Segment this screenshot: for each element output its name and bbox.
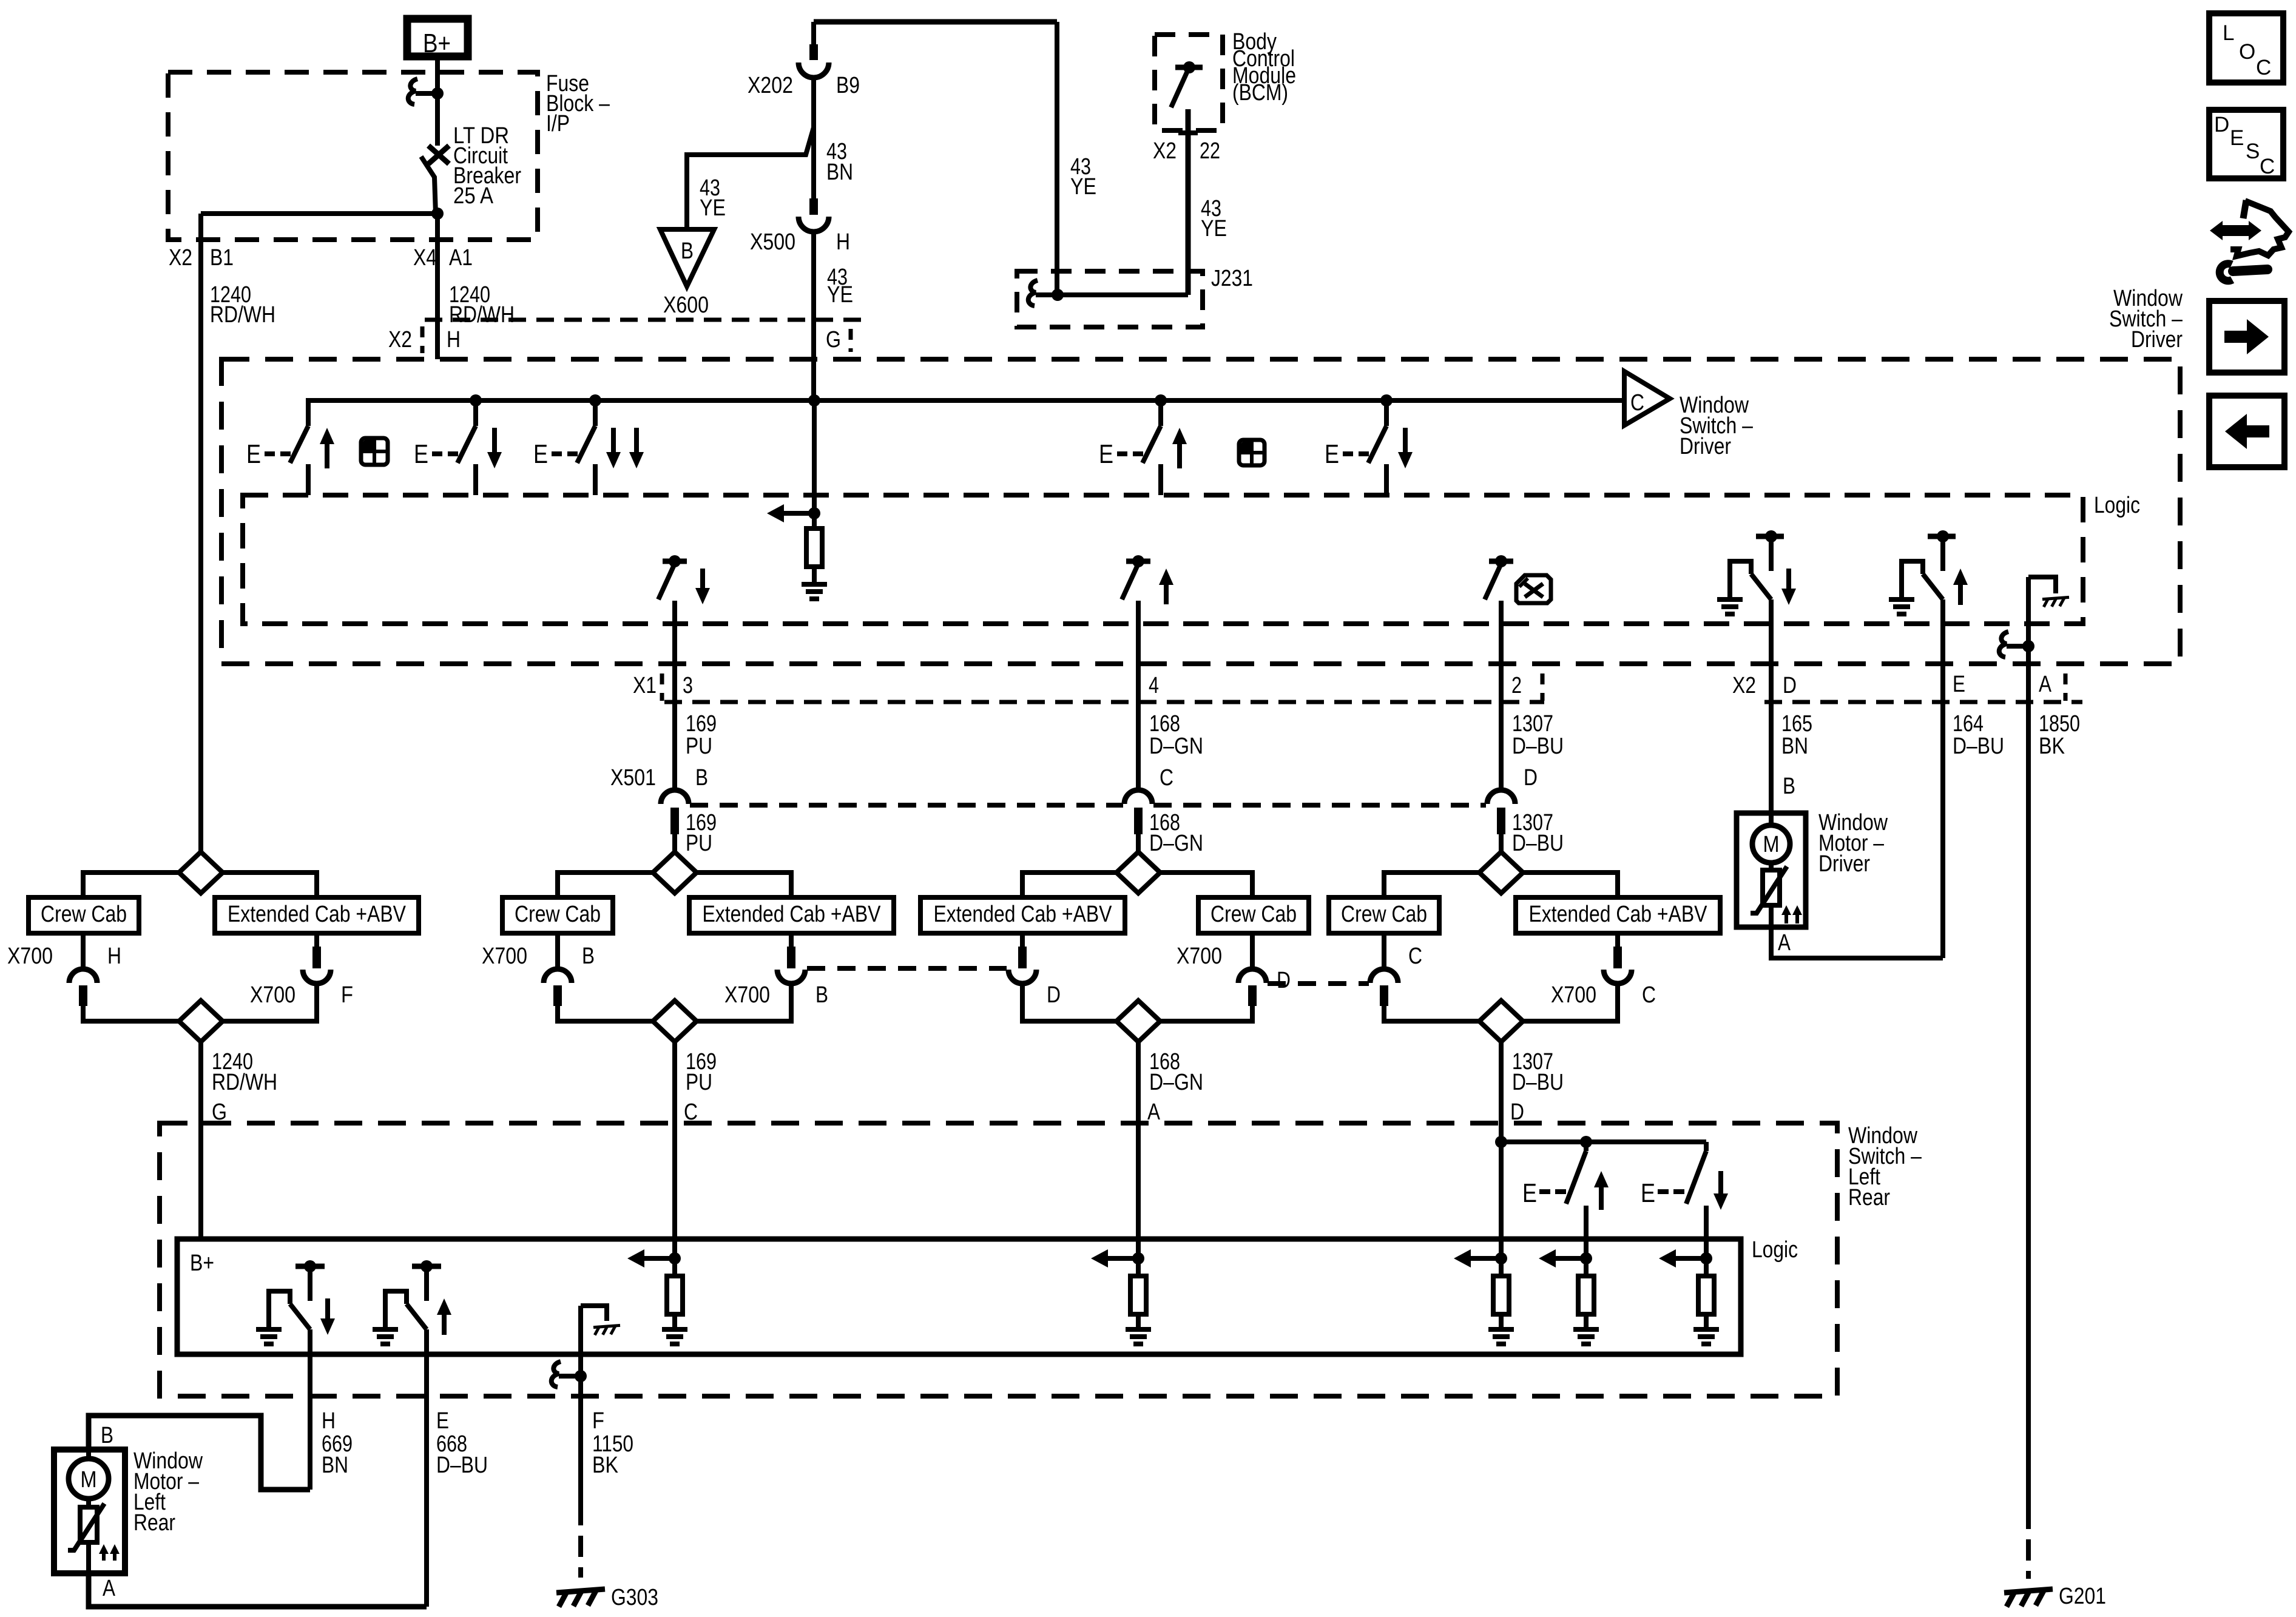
svg-text:B: B — [815, 982, 828, 1008]
svg-text:25 A: 25 A — [453, 183, 494, 209]
logic pulldown arrow at 1112 — [669, 1252, 681, 1264]
bus switch passenger down — [1384, 400, 1389, 426]
svg-text:D–BU: D–BU — [1512, 831, 1564, 856]
wire motor driver A out — [1769, 905, 1774, 927]
tick after pin A — [2064, 673, 2068, 701]
svg-text:X2: X2 — [1732, 673, 1756, 698]
svg-text:Driver: Driver — [1818, 851, 1870, 877]
svg-text:169: 169 — [686, 711, 717, 737]
wire 164 D-BU — [1940, 704, 1945, 958]
triangle connector C window switch driver — [1624, 371, 1670, 425]
svg-text:4: 4 — [1149, 673, 1159, 698]
svg-text:(BCM): (BCM) — [1232, 80, 1288, 106]
svg-text:X501: X501 — [610, 765, 656, 791]
wire left to lower splice group3 — [1022, 984, 1116, 1021]
left rear switch up — [1584, 1142, 1589, 1151]
resistor at 2614 — [1584, 1258, 1589, 1276]
svg-text:BK: BK — [592, 1453, 618, 1478]
svg-text:M: M — [81, 1467, 97, 1493]
connector X700 left cap group4 — [1382, 933, 1386, 969]
svg-text:C: C — [2256, 56, 2271, 79]
svg-text:YE: YE — [827, 282, 853, 308]
svg-text:2: 2 — [1511, 673, 1522, 698]
connector X700 right cup group1 — [314, 933, 319, 948]
svg-text:E: E — [436, 1408, 449, 1434]
wire 1307 D-BU to splice — [1499, 834, 1504, 852]
svg-text:D: D — [1783, 673, 1797, 698]
bus switch passenger up — [1158, 400, 1163, 426]
svg-text:H: H — [107, 944, 121, 969]
wire F dashed segment — [578, 1504, 583, 1578]
motor M driver — [1769, 813, 1774, 826]
splice J231 dashed box — [1017, 271, 1203, 327]
svg-text:H: H — [322, 1408, 336, 1434]
svg-text:YE: YE — [1201, 216, 1227, 241]
wire left to lower splice group2 — [558, 1006, 653, 1021]
circuit breaker LT DR 25A — [435, 93, 440, 146]
motor M left rear — [86, 1450, 91, 1460]
wire label 668 D-BU — [424, 1414, 429, 1607]
wire 1307 D-BU lower — [1499, 1042, 1504, 1142]
connector X202 arc — [799, 62, 829, 78]
svg-text:H: H — [836, 229, 850, 255]
wire 1240 RD/WH to left rear switch — [198, 1042, 203, 1239]
wire 169 PU to splice — [672, 834, 677, 852]
ground G303 — [556, 1589, 605, 1607]
DESC icon box — [2209, 110, 2283, 178]
svg-text:1307: 1307 — [1512, 711, 1553, 737]
svg-text:X2: X2 — [1153, 138, 1177, 164]
top bus wire to BCM branch — [814, 19, 1057, 25]
splice diamond lower C group4 — [1479, 1001, 1523, 1042]
wire 165 BN to window motor driver — [1769, 704, 1774, 813]
svg-text:X700: X700 — [7, 944, 53, 969]
wire D feed horizontal — [1501, 1139, 1706, 1144]
connector X700 left cap group1 — [81, 933, 86, 969]
svg-text:X600: X600 — [663, 292, 709, 318]
svg-text:D–BU: D–BU — [436, 1453, 488, 1478]
window motor left rear box — [54, 1450, 125, 1573]
left rear logic solid box — [177, 1239, 1741, 1354]
resistor at 2812 — [1704, 1258, 1709, 1276]
variant box Crew Cab group1 — [29, 897, 139, 933]
svg-text:X700: X700 — [1551, 982, 1596, 1008]
svg-text:Extended Cab +ABV: Extended Cab +ABV — [228, 902, 407, 927]
wire 169 PU lower — [672, 1042, 677, 1258]
wire H staircase to motor B — [89, 1416, 310, 1490]
fuse block dashed box — [168, 72, 538, 240]
svg-text:C: C — [1160, 765, 1173, 791]
variant box Crew Cab group3 — [1198, 897, 1309, 933]
wire breaker to X2-B1 branch — [201, 211, 437, 216]
connector X500 arc — [799, 217, 829, 232]
wire motor A to 164 D-BU — [1771, 927, 1943, 958]
BCM internal switch — [1175, 65, 1203, 70]
resistor logic 43YE — [812, 513, 817, 528]
splice J231 clip and junction — [1028, 280, 1038, 306]
branch wire right group1 — [223, 873, 317, 897]
junction D feed left rear — [1495, 1136, 1507, 1148]
svg-text:F: F — [341, 982, 353, 1008]
svg-text:PU: PU — [686, 734, 712, 759]
wire 1850 BK to G201 — [2026, 704, 2031, 1508]
svg-text:YE: YE — [700, 195, 726, 221]
svg-text:B: B — [582, 944, 595, 969]
svg-text:BK: BK — [2039, 734, 2065, 759]
svg-text:168: 168 — [1149, 711, 1180, 737]
variant box Extended Cab +ABV group1 — [215, 897, 419, 933]
window switch left rear dashed box — [160, 1123, 1837, 1396]
wire J231 to BCM wire — [1058, 292, 1188, 297]
wire breaker to X4-A1 — [435, 214, 440, 359]
svg-text:A: A — [1147, 1099, 1161, 1125]
svg-text:B: B — [695, 765, 708, 791]
tick X1 — [660, 673, 664, 701]
wire ground-switch D to X2 row — [1769, 599, 1774, 704]
variant box Crew Cab group4 — [1329, 897, 1439, 933]
svg-text:E: E — [533, 439, 548, 469]
splice diamond upper H group1 — [179, 852, 223, 893]
wire right to lower splice group2 — [697, 984, 791, 1021]
ground G201 — [2004, 1589, 2053, 1607]
svg-text:D: D — [1047, 982, 1061, 1008]
svg-text:Rear: Rear — [1848, 1185, 1890, 1210]
svg-text:G: G — [826, 327, 841, 353]
svg-text:E: E — [1953, 672, 1965, 697]
svg-text:X700: X700 — [724, 982, 770, 1008]
svg-text:Driver: Driver — [1680, 434, 1731, 459]
svg-text:Crew Cab: Crew Cab — [41, 902, 127, 927]
branch wire right group4 — [1523, 873, 1618, 897]
bus switch driver down — [473, 400, 478, 426]
window switch driver dashed box — [221, 359, 2180, 664]
bus junction X500 feed — [808, 394, 820, 407]
resistor at 1112 — [672, 1258, 677, 1276]
dashed connector link B to D — [807, 966, 1007, 971]
svg-text:Rear: Rear — [133, 1510, 175, 1536]
wire motor A left rear — [86, 1542, 91, 1573]
svg-text:C: C — [2260, 155, 2275, 178]
ground switch driver motor up — [1928, 534, 1956, 539]
svg-text:D–BU: D–BU — [1512, 1070, 1564, 1095]
svg-text:BN: BN — [322, 1453, 348, 1478]
svg-text:B: B — [1783, 774, 1795, 799]
svg-text:C: C — [1642, 982, 1656, 1008]
svg-text:1850: 1850 — [2039, 711, 2080, 737]
svg-text:B: B — [681, 238, 694, 264]
branch wire left group4 — [1384, 873, 1479, 897]
svg-text:Driver: Driver — [2131, 327, 2183, 353]
connector row X2 fuse output — [425, 318, 868, 322]
wire 169 PU upper — [672, 601, 677, 790]
branch wire right group3 — [1160, 873, 1252, 897]
wire right to lower splice group1 — [223, 984, 317, 1021]
svg-text:A: A — [2039, 672, 2052, 697]
connector X501 pin D — [1487, 790, 1515, 804]
svg-text:G303: G303 — [611, 1585, 658, 1610]
connector row X1 dotted line — [664, 700, 1544, 704]
ground at 2614 — [1584, 1314, 1589, 1329]
logic switch express output F column — [1489, 559, 1513, 564]
arrow left icon box — [2209, 396, 2284, 467]
wire X500 to bus 43 YE — [811, 231, 816, 400]
svg-text:E: E — [414, 439, 428, 469]
svg-text:X700: X700 — [250, 982, 295, 1008]
junction switch up feed — [1580, 1136, 1592, 1148]
wire 1307 D-BU upper — [1499, 601, 1504, 790]
logic pulldown arrow at 2474 — [1495, 1252, 1507, 1264]
thermistor driver — [1769, 863, 1774, 870]
svg-text:Logic: Logic — [1752, 1237, 1798, 1263]
svg-text:Extended Cab +ABV: Extended Cab +ABV — [1529, 902, 1708, 927]
svg-text:A: A — [1778, 930, 1791, 956]
variant box Extended Cab +ABV group3 — [920, 897, 1125, 933]
svg-text:X2: X2 — [169, 245, 192, 271]
resistor at 1876 — [1136, 1258, 1141, 1276]
double up arrows driver motor — [1781, 905, 1791, 915]
vehicle fitment icon — [2243, 200, 2246, 218]
splice diamond upper B group2 — [653, 852, 697, 893]
svg-text:X1: X1 — [633, 673, 657, 698]
wire F to G303 — [578, 1306, 583, 1504]
wire X2-B1 down-left feeder — [198, 214, 203, 852]
bus junction 3 — [1155, 394, 1167, 407]
splice diamond upper D group3 — [1116, 852, 1160, 893]
logic pulldown arrow at 2614 — [1580, 1252, 1592, 1264]
wire ground-switch E to X2 row — [1940, 599, 1945, 704]
svg-text:J231: J231 — [1211, 266, 1253, 291]
svg-text:X202: X202 — [748, 73, 793, 98]
bus junction 1 — [470, 394, 482, 407]
svg-text:S: S — [2246, 140, 2260, 163]
connector X700 left cap group2 — [555, 933, 560, 969]
splice diamond upper C group4 — [1479, 852, 1523, 893]
svg-text:D–BU: D–BU — [1512, 734, 1564, 759]
svg-text:PU: PU — [686, 831, 712, 856]
connector X700 right cup group4 — [1615, 933, 1620, 948]
svg-text:D: D — [1277, 968, 1291, 993]
svg-text:A1: A1 — [449, 245, 473, 271]
wire label 669 BN — [308, 1414, 312, 1490]
wire G into left rear box — [198, 1237, 203, 1241]
wire E out of switch — [424, 1329, 429, 1414]
svg-text:D–GN: D–GN — [1149, 734, 1203, 759]
svg-text:PU: PU — [686, 1070, 712, 1095]
svg-text:165: 165 — [1781, 711, 1812, 737]
svg-text:164: 164 — [1953, 711, 1984, 737]
left rear B+ switch down — [295, 1264, 325, 1269]
branch wire left group2 — [558, 873, 653, 897]
left rear switch down — [1704, 1142, 1709, 1151]
left rear B+ switch up — [412, 1264, 441, 1269]
splice diamond lower B group2 — [653, 1001, 697, 1042]
svg-text:X700: X700 — [1177, 944, 1222, 969]
variant box Extended Cab +ABV group4 — [1516, 897, 1720, 933]
logic switch up output E column — [1126, 559, 1150, 564]
wire B+ to circuit breaker — [435, 60, 440, 93]
svg-text:E: E — [2230, 126, 2244, 150]
connector X501 pin C — [1124, 790, 1152, 804]
LOC icon box — [2209, 13, 2283, 83]
circuit breaker clip — [408, 79, 417, 104]
splice diamond lower D group3 — [1116, 1001, 1160, 1042]
svg-text:RD/WH: RD/WH — [449, 302, 515, 328]
branch wire right group2 — [697, 873, 791, 897]
resistor at 2474 — [1499, 1258, 1504, 1276]
svg-text:X4: X4 — [413, 245, 437, 271]
svg-text:BN: BN — [1781, 734, 1808, 759]
window grid icon 2 — [1239, 440, 1264, 465]
driver bus wire — [308, 400, 1625, 408]
branch wire 43 YE to X600 — [687, 127, 814, 229]
connector X501 pin B — [661, 790, 689, 804]
svg-text:E: E — [1099, 439, 1113, 469]
logic switch down output D column — [663, 559, 687, 564]
wire 43 YE right branch to J231 — [1055, 22, 1059, 295]
ground switch driver motor down — [1756, 534, 1784, 539]
wire 1850 BK dashed segment — [2026, 1508, 2031, 1579]
bus junction 4 — [1380, 394, 1393, 407]
svg-text:RD/WH: RD/WH — [212, 1070, 277, 1095]
svg-text:D–GN: D–GN — [1149, 1070, 1203, 1095]
off-page triangle B X600 — [660, 229, 714, 286]
svg-text:D–GN: D–GN — [1149, 831, 1203, 856]
wire 168 D-GN lower — [1136, 1042, 1141, 1258]
svg-text:Crew Cab: Crew Cab — [1341, 902, 1427, 927]
svg-text:22: 22 — [1200, 138, 1220, 164]
svg-text:B1: B1 — [210, 245, 234, 271]
ground bracket F — [581, 1306, 607, 1321]
double up arrows left rear motor — [99, 1544, 109, 1554]
svg-text:D: D — [1524, 765, 1538, 791]
wire 168 D-GN upper — [1136, 601, 1141, 790]
svg-text:G201: G201 — [2059, 1584, 2106, 1609]
connector X700 left cup group3 — [1020, 933, 1025, 948]
variant box Crew Cab group2 — [502, 897, 613, 933]
svg-text:D–BU: D–BU — [1953, 734, 2004, 759]
svg-text:E: E — [1641, 1178, 1655, 1208]
body control module dashed box — [1155, 35, 1223, 130]
connector X700 right cup group2 — [789, 933, 794, 948]
svg-text:X700: X700 — [482, 944, 527, 969]
svg-text:3: 3 — [683, 673, 693, 698]
wire right to lower splice group3 — [1160, 1006, 1252, 1021]
wire 168 D-GN to splice — [1136, 834, 1141, 852]
arrow right icon box — [2209, 301, 2284, 373]
ground bracket A column — [2028, 577, 2056, 593]
svg-text:X500: X500 — [750, 229, 795, 255]
driver logic dashed box — [243, 495, 2083, 624]
splice diamond lower H group1 — [179, 1001, 223, 1042]
svg-text:M: M — [1763, 832, 1780, 857]
wire D into logic left rear — [1499, 1142, 1504, 1258]
ground at 1876 — [1136, 1314, 1141, 1329]
connector X202 terminal — [809, 44, 818, 60]
svg-text:F: F — [592, 1408, 604, 1434]
svg-text:E: E — [246, 439, 261, 469]
wire right to lower splice group4 — [1523, 984, 1618, 1021]
svg-text:B: B — [101, 1423, 113, 1448]
svg-text:E: E — [1522, 1178, 1537, 1208]
svg-text:X2: X2 — [388, 327, 412, 353]
bus junction 2 — [589, 394, 601, 407]
svg-text:B+: B+ — [423, 29, 451, 58]
logic pull-down on 43 YE input — [812, 400, 817, 513]
variant box Extended Cab +ABV group2 — [689, 897, 894, 933]
BCM output wire pin 22 — [1186, 109, 1191, 295]
wire A column logic to X2 row — [2026, 577, 2031, 704]
svg-text:YE: YE — [1070, 174, 1096, 200]
wire into X202 — [811, 22, 816, 44]
ground at 1112 — [672, 1314, 677, 1329]
svg-text:BN: BN — [826, 160, 853, 185]
wire left to lower splice group1 — [83, 1006, 179, 1021]
window-X express icon — [1516, 575, 1551, 603]
logic pulldown arrow at 1876 — [1132, 1252, 1144, 1264]
svg-text:D: D — [2214, 113, 2229, 137]
svg-text:Extended Cab +ABV: Extended Cab +ABV — [703, 902, 882, 927]
svg-text:Logic: Logic — [2094, 493, 2140, 518]
branch wire left group1 — [83, 873, 179, 897]
ground at 2474 — [1499, 1314, 1504, 1329]
svg-text:A: A — [103, 1576, 116, 1601]
wrench icon — [2220, 264, 2232, 281]
dashed connector link D to C — [1268, 981, 1369, 986]
wire left to lower splice group4 — [1384, 1006, 1479, 1021]
svg-text:L: L — [2223, 21, 2234, 45]
svg-text:O: O — [2239, 40, 2255, 64]
svg-text:H: H — [447, 327, 461, 353]
logic pulldown arrow at 2812 — [1700, 1252, 1712, 1264]
svg-text:Crew Cab: Crew Cab — [1210, 902, 1297, 927]
connector X500 terminal — [809, 198, 818, 215]
junction breaker output — [431, 208, 444, 220]
window grid icon 1 — [361, 438, 388, 465]
wire H out of switch — [308, 1329, 312, 1414]
svg-text:Crew Cab: Crew Cab — [515, 902, 601, 927]
splice clip F — [552, 1362, 561, 1387]
connector X700 right cap group3 — [1250, 933, 1255, 969]
wire motor A to 668 wire — [89, 1573, 427, 1607]
svg-text:B+: B+ — [190, 1251, 214, 1276]
svg-text:I/P: I/P — [546, 111, 570, 137]
svg-text:E: E — [1325, 439, 1339, 469]
svg-text:Extended Cab +ABV: Extended Cab +ABV — [934, 902, 1113, 927]
tick after pin 2 — [1541, 673, 1545, 701]
bus switch driver express down — [593, 400, 598, 426]
splice clip A column — [1999, 632, 2008, 657]
ground logic 43YE — [812, 567, 817, 584]
svg-text:C: C — [1408, 944, 1422, 969]
connector row X2 driver dotted line — [1764, 700, 2082, 704]
bus switch driver up — [306, 400, 311, 426]
svg-text:RD/WH: RD/WH — [210, 302, 275, 328]
connector X501 dotted row — [690, 803, 1123, 808]
svg-text:B9: B9 — [836, 73, 860, 98]
ground at 2812 — [1704, 1314, 1709, 1329]
svg-text:C: C — [1630, 390, 1644, 416]
wire X202 to X500 43 BN — [811, 77, 816, 198]
branch wire left group3 — [1022, 873, 1116, 897]
window motor driver box — [1737, 813, 1806, 927]
thermistor left rear — [86, 1499, 91, 1507]
battery feed B+ symbol — [407, 19, 468, 56]
